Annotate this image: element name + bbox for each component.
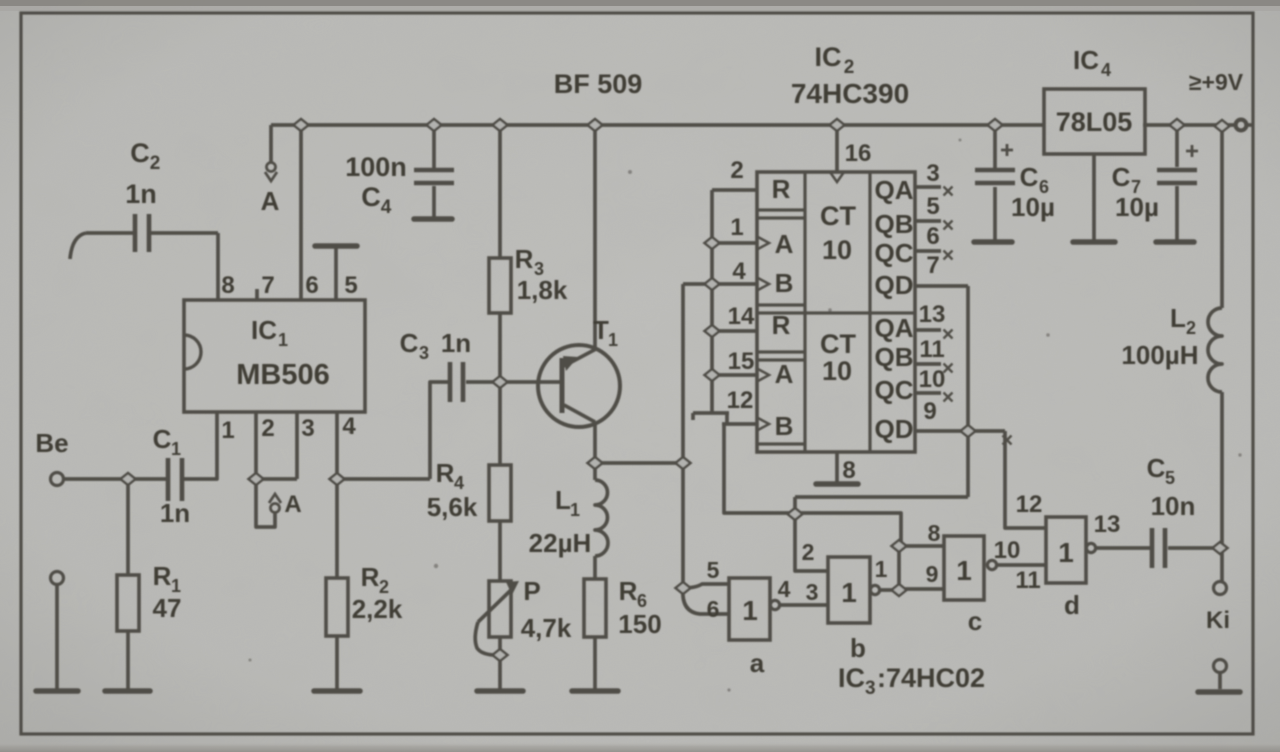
svg-text:A: A: [775, 229, 794, 259]
svg-text:1n: 1n: [441, 328, 471, 358]
svg-text:B: B: [775, 411, 794, 441]
svg-text:P: P: [523, 576, 540, 606]
svg-text:T: T: [593, 315, 609, 345]
svg-text:9: 9: [923, 398, 936, 425]
svg-text:10µ: 10µ: [1115, 192, 1159, 222]
svg-text:10: 10: [919, 366, 946, 393]
svg-text:A: A: [284, 491, 301, 518]
svg-text:IC: IC: [838, 663, 865, 693]
svg-text:3: 3: [865, 678, 876, 699]
svg-text:2: 2: [261, 415, 274, 442]
svg-text:100n: 100n: [345, 152, 407, 182]
svg-text:IC: IC: [251, 315, 277, 345]
svg-text:≥+9V: ≥+9V: [1189, 69, 1244, 95]
svg-text:C: C: [130, 138, 150, 168]
svg-text:MB506: MB506: [236, 359, 330, 391]
svg-text:1: 1: [875, 556, 888, 582]
svg-text:2: 2: [730, 157, 743, 184]
svg-text:14: 14: [728, 303, 755, 330]
svg-text:16: 16: [845, 140, 872, 167]
svg-text:QB: QB: [875, 342, 914, 372]
svg-text:QB: QB: [875, 209, 914, 239]
svg-text:IC: IC: [1073, 45, 1099, 75]
svg-text:2: 2: [150, 153, 161, 174]
svg-text:74HC390: 74HC390: [791, 78, 909, 109]
svg-text:5: 5: [926, 193, 939, 220]
svg-text:9: 9: [926, 561, 939, 587]
svg-text:R: R: [436, 458, 455, 488]
svg-text:8: 8: [928, 520, 941, 546]
svg-text:3: 3: [806, 579, 819, 605]
svg-text:C: C: [1112, 162, 1131, 192]
svg-text:7: 7: [926, 252, 939, 279]
svg-text:B: B: [775, 268, 794, 298]
svg-text::74HC02: :74HC02: [877, 663, 985, 693]
svg-text:R: R: [772, 310, 791, 340]
svg-text:1: 1: [956, 555, 972, 586]
svg-text:7: 7: [261, 272, 274, 299]
svg-text:QC: QC: [875, 375, 914, 405]
svg-text:QD: QD: [875, 270, 914, 300]
svg-text:100µH: 100µH: [1121, 340, 1198, 370]
svg-text:R: R: [772, 174, 791, 204]
svg-text:C: C: [1020, 162, 1039, 192]
svg-text:10µ: 10µ: [1011, 192, 1055, 222]
svg-text:QA: QA: [875, 175, 914, 205]
svg-text:QD: QD: [875, 414, 914, 444]
svg-text:13: 13: [919, 301, 946, 328]
svg-text:4: 4: [381, 197, 392, 218]
svg-text:C: C: [400, 328, 419, 358]
svg-text:2: 2: [1186, 318, 1196, 338]
svg-text:6: 6: [707, 596, 720, 622]
svg-text:2: 2: [844, 57, 855, 78]
svg-text:1n: 1n: [160, 498, 190, 528]
svg-text:b: b: [850, 633, 866, 663]
svg-text:1: 1: [730, 214, 743, 241]
svg-text:C: C: [153, 424, 172, 454]
svg-text:CT: CT: [820, 201, 856, 231]
svg-text:8: 8: [221, 272, 234, 299]
svg-text:L: L: [555, 485, 571, 515]
svg-text:13: 13: [1094, 511, 1121, 538]
svg-text:78L05: 78L05: [1056, 107, 1133, 137]
svg-text:4: 4: [778, 576, 791, 602]
svg-text:C: C: [1147, 453, 1166, 483]
svg-text:6: 6: [637, 591, 647, 611]
svg-text:5: 5: [1165, 468, 1175, 488]
svg-text:5,6k: 5,6k: [427, 492, 478, 522]
svg-text:8: 8: [842, 457, 855, 484]
svg-text:5: 5: [344, 272, 357, 299]
svg-text:3: 3: [926, 160, 939, 187]
svg-text:A: A: [261, 186, 280, 216]
svg-text:2: 2: [802, 539, 815, 565]
svg-text:Be: Be: [35, 428, 68, 458]
svg-text:QC: QC: [875, 238, 914, 268]
svg-text:a: a: [750, 648, 765, 678]
svg-text:10n: 10n: [1151, 491, 1196, 521]
svg-text:1: 1: [1058, 537, 1074, 568]
svg-text:22µH: 22µH: [529, 528, 592, 558]
svg-text:1: 1: [221, 417, 234, 444]
svg-text:4: 4: [454, 473, 464, 493]
svg-text:4: 4: [342, 413, 356, 440]
svg-text:c: c: [968, 606, 982, 636]
svg-text:QA: QA: [875, 313, 914, 343]
svg-text:4: 4: [732, 258, 746, 285]
svg-text:2,2k: 2,2k: [352, 594, 403, 624]
svg-text:4,7k: 4,7k: [521, 613, 572, 643]
svg-text:47: 47: [153, 593, 182, 623]
svg-text:R: R: [361, 562, 380, 592]
svg-text:10: 10: [822, 235, 852, 265]
svg-text:1: 1: [171, 439, 181, 459]
svg-text:11: 11: [919, 336, 944, 363]
svg-text:12: 12: [727, 387, 754, 414]
svg-text:3: 3: [301, 415, 314, 442]
svg-text:R: R: [515, 244, 534, 274]
svg-text:11: 11: [1015, 567, 1040, 594]
svg-text:1: 1: [608, 330, 618, 350]
svg-text:12: 12: [1016, 491, 1043, 518]
svg-text:150: 150: [618, 609, 661, 639]
svg-text:1: 1: [841, 577, 857, 608]
svg-text:1n: 1n: [125, 179, 157, 209]
svg-text:1: 1: [278, 330, 288, 350]
svg-text:A: A: [775, 359, 794, 389]
svg-text:C: C: [361, 182, 381, 212]
svg-text:5: 5: [707, 557, 720, 583]
svg-text:1: 1: [742, 595, 758, 626]
svg-text:15: 15: [728, 348, 755, 375]
svg-text:R: R: [153, 561, 172, 591]
svg-text:3: 3: [419, 343, 429, 363]
svg-text:IC: IC: [815, 42, 842, 72]
svg-text:d: d: [1064, 590, 1080, 620]
svg-text:10: 10: [822, 356, 852, 386]
svg-text:4: 4: [1101, 60, 1111, 80]
svg-text:6: 6: [926, 223, 939, 250]
svg-text:1: 1: [570, 500, 580, 520]
svg-text:1,8k: 1,8k: [517, 275, 568, 305]
svg-text:L: L: [1170, 303, 1186, 333]
svg-text:BF 509: BF 509: [554, 69, 643, 99]
svg-text:Ki: Ki: [1206, 607, 1230, 634]
svg-text:CT: CT: [820, 329, 856, 359]
svg-text:R: R: [619, 576, 638, 606]
svg-text:6: 6: [305, 272, 318, 299]
svg-text:10: 10: [994, 537, 1021, 564]
